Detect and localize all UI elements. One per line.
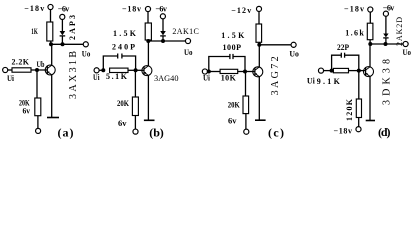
svg-text:22P: 22P	[337, 43, 349, 52]
svg-text:100P: 100P	[223, 43, 242, 52]
resistor 120K (d)	[356, 99, 361, 118]
svg-text:6v: 6v	[228, 116, 237, 125]
wire collector (c)	[258, 45, 260, 67]
wire output rail (a)	[51, 43, 83, 45]
svg-text:Ui: Ui	[203, 74, 211, 83]
wire	[8, 69, 12, 71]
terminal Uo (c)	[291, 42, 296, 47]
wire	[349, 70, 359, 72]
wire	[37, 116, 39, 129]
wire base (d)	[359, 70, 366, 72]
resistor 1.5K (c)	[256, 24, 262, 42]
terminal -6v (d)	[383, 11, 388, 16]
transistor 3DK38 (d)	[364, 67, 374, 77]
svg-text:1.5K: 1.5K	[221, 31, 245, 40]
ground (d)	[366, 120, 375, 122]
wire	[147, 12, 149, 23]
terminal Ui (b)	[94, 68, 99, 73]
svg-text:−6v: −6v	[383, 4, 395, 13]
svg-text:1K: 1K	[31, 27, 38, 36]
svg-text:240P: 240P	[112, 43, 135, 52]
wire output rail (b)	[148, 40, 185, 42]
wire collector (d)	[369, 44, 371, 67]
svg-text:(b): (b)	[149, 125, 164, 139]
resistor 20K (a)	[35, 98, 41, 116]
terminal -18v (b)	[145, 6, 150, 11]
diode 2AK1C (b)	[160, 31, 166, 35]
resistor 5.1K (b)	[110, 68, 128, 72]
svg-text:20K: 20K	[228, 101, 241, 110]
terminal Ui (a)	[3, 67, 8, 72]
wire	[385, 16, 387, 33]
wire	[369, 12, 371, 23]
svg-text:Ui: Ui	[7, 74, 15, 83]
wire	[258, 42, 260, 45]
transistor 3AX31B (a)	[45, 65, 55, 75]
terminal -6v (a)	[60, 14, 65, 19]
svg-text:Uo: Uo	[184, 48, 193, 57]
diode 2AK2D (d)	[383, 34, 388, 38]
svg-text:Uo: Uo	[289, 49, 299, 58]
terminal -12v (c)	[256, 6, 261, 11]
svg-text:120K: 120K	[345, 98, 354, 121]
wire capacitor branch right (c)	[233, 57, 245, 72]
wire capacitor branch left (d)	[332, 55, 342, 70]
wire output rail (c)	[259, 44, 291, 46]
resistor 20K (b)	[132, 97, 138, 116]
svg-text:−18v: −18v	[344, 4, 364, 13]
wire emitter (a)	[51, 75, 53, 118]
transistor 3AG72 (c)	[253, 67, 263, 77]
svg-text:1.6k: 1.6k	[345, 29, 364, 38]
svg-text:Ui: Ui	[93, 73, 100, 82]
svg-text:Ui: Ui	[307, 76, 316, 85]
terminal -18v bottom (d)	[356, 127, 361, 132]
node diode junction (a)	[61, 42, 65, 46]
wire capacitor branch left (c)	[209, 57, 230, 72]
node input junction (b)	[101, 68, 105, 72]
node collector junction (b)	[146, 39, 150, 43]
wire base (a)	[31, 69, 47, 71]
node collector junction (a)	[49, 42, 53, 46]
terminal 6v (a)	[36, 128, 41, 133]
node input junction (c)	[207, 70, 211, 74]
svg-text:6v: 6v	[118, 119, 127, 128]
wire	[61, 20, 63, 32]
svg-text:−18v: −18v	[334, 126, 353, 135]
svg-text:1.5K: 1.5K	[113, 29, 137, 38]
wire capacitor branch right (d)	[345, 55, 359, 70]
terminal Uo (a)	[83, 42, 88, 47]
wire base (c)	[245, 71, 255, 73]
terminal -6v (b)	[160, 14, 165, 19]
node diode junction (b)	[161, 39, 165, 43]
node collector junction (d)	[368, 42, 372, 46]
terminal -18v top (d)	[368, 7, 373, 12]
wire	[134, 116, 136, 130]
terminal 6v (c)	[244, 129, 249, 134]
node collector junction (c)	[257, 43, 261, 47]
svg-text:20K: 20K	[117, 99, 130, 108]
svg-text:2AK2D: 2AK2D	[395, 17, 404, 46]
wire	[385, 38, 387, 43]
svg-text:(c): (c)	[268, 125, 284, 139]
wire	[208, 71, 209, 73]
wire 20K branch (b)	[134, 70, 136, 97]
resistor 10K (c)	[220, 69, 238, 73]
svg-text:10K: 10K	[221, 74, 237, 83]
node base junction (d)	[357, 69, 361, 73]
svg-text:5.1K: 5.1K	[106, 72, 128, 81]
node base junction (b)	[134, 68, 138, 72]
svg-text:−18v: −18v	[24, 4, 44, 13]
svg-text:−18v: −18v	[122, 4, 141, 13]
svg-text:−6v: −6v	[155, 5, 167, 14]
ground (c)	[255, 119, 266, 121]
resistor 1.6k (d)	[367, 23, 373, 40]
terminal -18v (a)	[48, 4, 53, 9]
svg-text:(a): (a)	[58, 126, 74, 140]
capacitor 240P (b)	[117, 54, 119, 59]
svg-text:Ub: Ub	[37, 60, 45, 69]
svg-text:(d): (d)	[378, 125, 391, 139]
node diode junction (d)	[384, 42, 388, 46]
wire	[369, 40, 371, 44]
wire collector (a)	[51, 44, 53, 65]
wire emitter (b)	[147, 75, 149, 120]
svg-text:Uo: Uo	[82, 49, 91, 58]
capacitor 22P (d)	[340, 53, 342, 58]
terminal Ui (c)	[202, 69, 207, 74]
wire 20K branch (c)	[245, 72, 247, 97]
ground (a)	[47, 117, 59, 119]
wire collector (b)	[147, 41, 149, 66]
resistor 1K (a)	[47, 22, 53, 41]
wire 20K branch (a)	[36, 70, 38, 98]
terminal Ui (d)	[318, 68, 323, 73]
wire capacitor branch left (b)	[103, 56, 117, 70]
wire	[50, 41, 52, 44]
wire	[258, 12, 260, 25]
terminal Uo (d)	[403, 41, 408, 46]
node input junction (d)	[330, 69, 334, 73]
wire	[162, 36, 164, 40]
wire output rail (d)	[370, 43, 403, 45]
wire base (b)	[136, 69, 144, 71]
node base junction (a)	[35, 68, 39, 72]
resistor 2.2K (a)	[12, 68, 31, 72]
diode 2AP3 (a)	[60, 31, 66, 35]
terminal Uo (b)	[185, 38, 190, 43]
wire	[245, 114, 247, 130]
wire	[162, 19, 164, 31]
wire emitter (c)	[258, 77, 260, 121]
svg-text:−6v: −6v	[58, 5, 70, 14]
wire	[324, 70, 332, 72]
wire	[50, 10, 52, 23]
node base junction (c)	[243, 70, 247, 74]
ground (b)	[144, 119, 155, 121]
svg-text:2.2K: 2.2K	[12, 58, 30, 67]
wire	[358, 118, 360, 127]
wire	[61, 36, 63, 44]
svg-text:9.1K: 9.1K	[317, 77, 341, 86]
resistor 20K (c)	[243, 96, 249, 114]
wire	[128, 69, 136, 71]
svg-text:Uo: Uo	[403, 48, 412, 57]
svg-text:6v: 6v	[23, 107, 31, 116]
svg-text:3AG40: 3AG40	[154, 74, 179, 83]
transistor 3AG40 (b)	[142, 66, 152, 76]
svg-text:−12v: −12v	[231, 6, 251, 15]
svg-text:2AK1C: 2AK1C	[172, 27, 199, 36]
terminal 6v (b)	[133, 129, 138, 134]
capacitor 100P (c)	[229, 54, 231, 59]
wire	[147, 40, 149, 41]
wire	[209, 71, 220, 73]
resistor 9.1K (d)	[333, 68, 348, 72]
wire	[99, 69, 103, 71]
wire capacitor branch right (b)	[122, 56, 136, 70]
svg-text:3AX31B: 3AX31B	[68, 51, 79, 99]
resistor 1.5K (b)	[145, 23, 151, 40]
wire emitter (d)	[369, 76, 371, 120]
wire 120K branch (d)	[358, 71, 360, 99]
